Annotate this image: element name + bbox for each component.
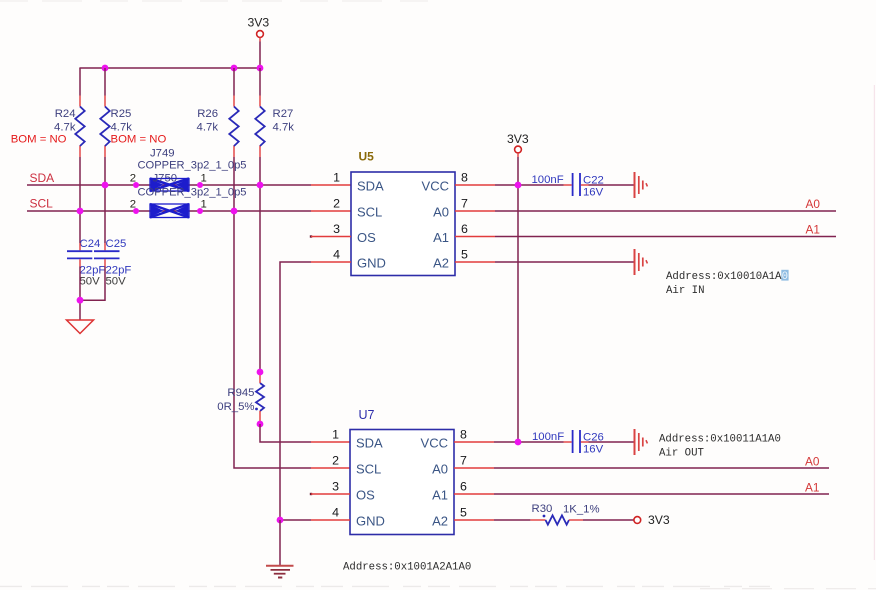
svg-text:1: 1 — [332, 428, 339, 442]
power symbol 3V3 (top, above R27 column) — [248, 16, 270, 42]
wire: R945 bottom down and over to U7 pin 1 — [260, 424, 350, 442]
svg-text:50V: 50V — [80, 276, 101, 288]
node: junction dot SDA x=105 — [102, 182, 109, 189]
svg-text:3V3: 3V3 — [648, 513, 670, 527]
node: junction dot SCL x=234 — [231, 208, 238, 215]
node: junction dot R945 bottom — [257, 421, 264, 428]
op-amp U7 (I2C temp sensor box) — [350, 408, 454, 535]
wire: top 3V3 bus horizontal — [79, 67, 260, 69]
svg-text:COPPER_3p2_1_0p5: COPPER_3p2_1_0p5 — [138, 160, 247, 172]
svg-text:4: 4 — [332, 506, 339, 520]
svg-text:SDA: SDA — [357, 179, 384, 194]
wire: C24 bottom to ground — [79, 267, 81, 321]
svg-text:C24: C24 — [80, 238, 101, 250]
resistor R945 0R_5% — [217, 372, 264, 424]
svg-text:5: 5 — [461, 248, 468, 262]
jumper J750 COPPER_3p2_1_0p5 (on SCL) — [130, 173, 247, 218]
wire: SDA net horizontal to U5 pin 1 — [27, 184, 351, 186]
svg-text:U7: U7 — [359, 408, 375, 422]
svg-text:OS: OS — [356, 488, 375, 503]
svg-text:8: 8 — [460, 428, 467, 442]
svg-text:6: 6 — [460, 480, 467, 494]
wire: 3V3 vertical down through U5 VCC to U7 VCC — [517, 157, 519, 442]
resistor R27 4.7k — [255, 107, 294, 147]
svg-text:A0: A0 — [806, 197, 821, 211]
resistor R26 4.7k — [197, 107, 239, 147]
svg-text:100nF: 100nF — [532, 174, 564, 186]
ground: classic GND symbol under U7 — [266, 566, 294, 578]
svg-text:0: 0 — [782, 271, 788, 283]
svg-text:OS: OS — [357, 230, 376, 245]
node: J749 pin 2 dot — [133, 182, 139, 188]
svg-text:GND: GND — [357, 256, 386, 271]
wire: U7 VCC pin 8 row to C26 — [454, 441, 564, 443]
svg-text:Air OUT: Air OUT — [659, 447, 704, 459]
svg-text:4: 4 — [333, 248, 340, 262]
text: Address 0x10010A1A0 with highlighted last char — [666, 270, 789, 283]
node: junction dot x=80 y=300 — [77, 297, 84, 304]
capacitor C22 100nF 16V — [532, 173, 604, 199]
wire: U7 SCL pin stub — [311, 467, 350, 469]
svg-text:VCC: VCC — [421, 436, 448, 451]
node: junction dot bus x=234 — [231, 65, 238, 72]
node: junction dot VCC/3V3 x=518 — [515, 182, 522, 189]
svg-text:A1: A1 — [432, 488, 448, 503]
svg-text:SCL: SCL — [356, 462, 381, 477]
svg-text:1K_1%: 1K_1% — [563, 504, 600, 516]
svg-text:Address:0x1001A2A1A0: Address:0x1001A2A1A0 — [343, 562, 471, 574]
node: junction dot GND column x=280 — [277, 517, 284, 524]
svg-text:8: 8 — [461, 171, 468, 185]
svg-text:1: 1 — [333, 171, 340, 185]
ground: open triangle ground below C24/C25 — [67, 320, 94, 334]
svg-text:6: 6 — [461, 222, 468, 236]
svg-text:BOM = NO: BOM = NO — [11, 134, 67, 146]
node: J750 pin 1 dot — [197, 208, 203, 214]
wire: U5 A0 pin 7 net to right edge — [455, 210, 836, 212]
svg-text:A0: A0 — [805, 455, 820, 469]
svg-text:16V: 16V — [583, 444, 604, 456]
svg-text:COPPER_3p2_1_0p5: COPPER_3p2_1_0p5 — [138, 187, 247, 199]
node: junction dot bus x=260 — [257, 65, 264, 72]
svg-text:Air IN: Air IN — [666, 285, 704, 297]
svg-text:R27: R27 — [273, 108, 294, 120]
svg-text:100nF: 100nF — [532, 431, 564, 443]
capacitor C25 22pF 50V — [94, 238, 131, 288]
wire: C25 bottom jog over to C24 column — [80, 267, 105, 301]
svg-text:R26: R26 — [197, 108, 218, 120]
svg-text:4.7k: 4.7k — [111, 122, 133, 134]
svg-text:SDA: SDA — [356, 436, 383, 451]
wire: C22 to ground — [589, 184, 634, 186]
svg-text:SCL: SCL — [357, 205, 382, 220]
svg-text:2: 2 — [333, 197, 340, 211]
svg-text:A1: A1 — [806, 223, 820, 237]
capacitor C26 100nF 16V — [532, 430, 604, 456]
wire: GND column down to ground symbol — [279, 520, 281, 565]
wire: U7 A0 pin 7 net to right edge — [454, 467, 829, 469]
svg-text:J749: J749 — [150, 148, 175, 160]
wire: U7 GND pin to ground column — [280, 519, 350, 521]
capacitor C24 22pF 50V — [67, 238, 105, 288]
svg-text:3: 3 — [332, 480, 339, 494]
wire: C26 to ground — [589, 441, 634, 443]
node: junction dot SCL x=80 — [77, 208, 84, 215]
svg-text:3: 3 — [333, 222, 340, 236]
svg-text:R24: R24 — [55, 108, 76, 120]
node: junction dot R945 top — [257, 369, 264, 376]
ground: sideways bar ground at C22 — [635, 172, 648, 198]
svg-text:50V: 50V — [106, 276, 127, 288]
svg-text:U5: U5 — [359, 150, 375, 164]
svg-text:7: 7 — [460, 454, 467, 468]
svg-text:5: 5 — [460, 506, 467, 520]
wire: 3V3 vertical down to top bus — [259, 42, 261, 69]
svg-text:A0: A0 — [433, 205, 449, 220]
svg-text:3V3: 3V3 — [248, 16, 270, 30]
wire: U5 GND pin to ground column — [280, 262, 351, 520]
op-amp U5 (I2C temp sensor box) — [351, 150, 455, 276]
resistor R24 4.7k — [11, 107, 85, 147]
node: J750 pin 2 dot — [133, 208, 139, 214]
wire: U5 OS pin stub (unconnected) — [310, 235, 312, 237]
wire: U5 A1 pin 6 net to right edge — [455, 236, 836, 238]
svg-text:A1: A1 — [433, 230, 449, 245]
wire: R30 to 3V3 circle — [569, 519, 634, 521]
svg-text:A2: A2 — [433, 256, 449, 271]
node: junction dot SDA x=260 — [257, 182, 264, 189]
node: junction dot bus x=105 — [102, 65, 109, 72]
svg-text:4.7k: 4.7k — [197, 122, 219, 134]
wire: R24 column from bus down to SCL — [79, 68, 81, 243]
svg-text:VCC: VCC — [422, 179, 449, 194]
svg-text:4.7k: 4.7k — [273, 122, 295, 134]
jumper J749 COPPER_3p2_1_0p5 (on SDA) — [130, 148, 247, 192]
svg-text:Address:0x10011A1A0: Address:0x10011A1A0 — [659, 433, 781, 445]
svg-text:Address:0x10010A1A: Address:0x10010A1A — [666, 271, 782, 283]
svg-text:SDA: SDA — [30, 171, 55, 185]
svg-text:SCL: SCL — [30, 197, 54, 211]
svg-text:R25: R25 — [111, 108, 132, 120]
power symbol 3V3 (right of R30) — [634, 513, 670, 527]
svg-text:R30: R30 — [532, 503, 553, 515]
power symbol 3V3 (above U5 VCC) — [507, 132, 529, 157]
resistor R25 4.7k — [100, 107, 166, 147]
wire: U5 A2 pin 5 to ground — [455, 261, 634, 263]
svg-text:J750: J750 — [153, 173, 178, 185]
svg-text:2: 2 — [332, 454, 339, 468]
wire: R26 column from bus down to SCL then over to U7 pin2 — [234, 68, 311, 468]
wire: U5 VCC pin 8 row to C22 — [455, 184, 564, 186]
wire: R25 column from bus down to SDA — [104, 68, 106, 243]
svg-text:A0: A0 — [432, 462, 448, 477]
wire: R27 column from bus down through SDA to R945 — [259, 68, 261, 372]
svg-text:A1: A1 — [805, 481, 819, 495]
svg-text:C25: C25 — [106, 238, 127, 250]
svg-text:A2: A2 — [432, 514, 448, 529]
svg-text:GND: GND — [356, 514, 385, 529]
svg-text:7: 7 — [461, 197, 468, 211]
node: J749 pin 1 dot — [197, 182, 203, 188]
wire: U7 OS pin stub (unconnected) — [310, 493, 312, 495]
svg-text:4.7k: 4.7k — [54, 122, 76, 134]
resistor R30 1K_1% — [532, 503, 600, 525]
wire: U7 A2 pin 5 to R30 — [454, 519, 546, 521]
wire: U7 A1 pin 6 net to right edge — [454, 493, 829, 495]
svg-text:3V3: 3V3 — [507, 132, 529, 146]
svg-text:0R_5%: 0R_5% — [217, 401, 254, 413]
node: junction dot VCC/3V3 x=518 (U7) — [515, 439, 522, 446]
svg-text:16V: 16V — [583, 187, 604, 199]
wire: SCL net horizontal to U5 pin 2 — [27, 210, 351, 212]
ground: sideways bar ground at C26 — [635, 429, 648, 455]
svg-text:R945: R945 — [227, 387, 254, 399]
ground: sideways bar ground at U5 A2 — [635, 249, 648, 275]
svg-text:BOM = NO: BOM = NO — [111, 134, 167, 146]
